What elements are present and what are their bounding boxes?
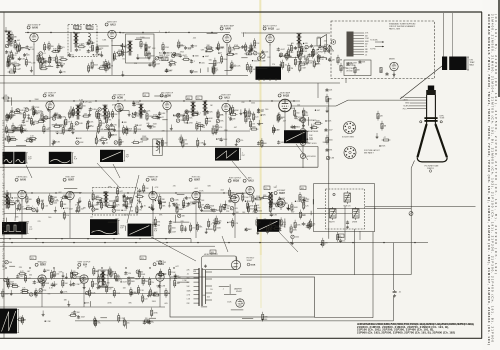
volume pot [258,53,266,63]
svg-text:560: 560 [265,109,268,111]
wire band3 bus [4,192,250,194]
svg-text:CONTRAST: CONTRAST [307,119,318,122]
scope waveform photo R2 [49,152,78,164]
svg-text:1000: 1000 [140,37,144,39]
svg-text:5%: 5% [260,140,263,142]
svg-text:560: 560 [309,226,312,228]
svg-text:TO 45 MC: TO 45 MC [370,40,379,42]
svg-text:.1: .1 [170,280,172,282]
svg-text:47: 47 [124,100,126,102]
svg-text:6SN7: 6SN7 [40,265,46,267]
svg-text:5%: 5% [80,283,83,285]
svg-text:560: 560 [296,113,299,115]
svg-text:.0047: .0047 [182,55,187,57]
svg-text:.047: .047 [119,191,123,193]
svg-text:270: 270 [28,209,31,211]
svg-text:270: 270 [63,71,66,73]
svg-text:1000: 1000 [343,68,347,70]
svg-text:2.2M: 2.2M [46,321,50,323]
svg-text:1000: 1000 [212,126,216,128]
wire band4 mid bus [0,293,170,295]
svg-text:270: 270 [223,209,226,211]
svg-text:5%: 5% [122,59,125,61]
svg-text:1000: 1000 [329,140,333,142]
extra parts pass [5,38,314,324]
CRT neck pin wires [401,97,427,110]
wire band2/band3 separator [0,166,318,168]
parts column x327 [324,88,334,160]
svg-text:120: 120 [302,215,305,217]
svg-text:120: 120 [145,318,148,320]
svg-text:120: 120 [128,273,131,275]
svg-text:SOCKET VIEW: SOCKET VIEW [342,137,354,139]
svg-text:6SN7: 6SN7 [68,180,74,182]
top right vertical wire [443,13,445,57]
scope waveform photo R4 [215,148,246,161]
tube V16b [274,189,286,210]
svg-text:5%: 5% [210,289,213,291]
svg-text:5%: 5% [8,129,11,131]
svg-text:.01: .01 [151,322,154,324]
wire loop deflection box [170,277,315,317]
svg-text:47: 47 [19,68,21,70]
flyback transformer [187,268,213,306]
svg-text:1ST VIDEO IF: 1ST VIDEO IF [44,92,57,94]
svg-text:47: 47 [85,266,87,268]
svg-text:6AL5: 6AL5 [110,23,116,26]
wire band1 lower bus [0,75,248,77]
svg-text:MAG: MAG [470,64,475,67]
svg-text:560: 560 [264,143,267,145]
wire v x411 [411,161,414,275]
band1 right extra clusters [248,53,259,62]
svg-text:.002: .002 [17,40,21,42]
scope waveform photo R5-video [284,130,313,143]
tube V3 1st audio [220,24,235,45]
band1 left input coil [6,31,11,46]
svg-text:120: 120 [129,131,132,133]
wire band1/band2 separator [0,82,340,84]
svg-text:AUDIO OUTPUT: AUDIO OUTPUT [263,24,278,27]
bus junction dots [5,32,415,269]
scope waveform photo R1b [14,152,32,164]
svg-text:2.2M: 2.2M [75,284,79,286]
svg-text:SCRN: SCRN [403,106,409,108]
tuner bottom stub wire [345,79,347,84]
svg-text:120: 120 [255,117,258,119]
svg-text:.0047: .0047 [123,215,128,217]
tube V12 phase det [146,176,159,203]
scope waveform photo S3 [128,224,158,237]
svg-text:560: 560 [83,105,86,107]
left third density boost band1 [10,36,131,76]
svg-text:2.2M: 2.2M [199,143,203,145]
svg-text:5%: 5% [241,140,244,142]
svg-text:6BQ7 6U8: 6BQ7 6U8 [346,68,354,70]
svg-text:6SN7: 6SN7 [279,193,285,195]
svg-text:120: 120 [314,46,317,48]
svg-text:.01: .01 [365,46,367,48]
svg-text:HOR OSC: HOR OSC [192,177,201,179]
scan fold yellow mark [259,0,262,255]
svg-text:GRID: GRID [405,103,410,105]
tube socket diagram 2 [344,147,380,159]
scope waveform photo S1 [2,222,33,234]
svg-text:270: 270 [114,125,117,127]
svg-text:.002: .002 [29,47,32,49]
svg-text:2.2M: 2.2M [172,232,176,234]
horiz linearity coil [344,191,352,207]
tube V7 3rd video IF [160,92,174,112]
model list text block [357,322,474,335]
svg-text:6AL5: 6AL5 [248,180,254,183]
tube V10 agc [15,176,28,202]
svg-text:2.2M: 2.2M [10,284,14,286]
svg-text:.002: .002 [303,62,307,64]
svg-text:47: 47 [177,275,179,277]
svg-text:.0047: .0047 [275,226,280,228]
wire v x393.4 upper + cap [392,243,394,290]
svg-text:.047: .047 [27,278,31,280]
svg-text:.0047: .0047 [280,49,285,51]
svg-text:.005: .005 [90,43,94,45]
svg-text:.005: .005 [201,62,205,64]
CRT socket diagram [342,122,356,139]
svg-text:6BQ6: 6BQ6 [233,181,240,183]
svg-text:500K: 500K [251,265,256,267]
left border line [3,12,5,338]
svg-text:270: 270 [95,54,98,56]
wire video amp to CRT [291,100,408,106]
wire corner up x318 [317,147,319,168]
svg-text:6AQ5: 6AQ5 [283,94,290,97]
svg-text:.047: .047 [123,210,127,212]
phono jack [331,40,335,44]
tube V1 2nd sound IF [27,24,41,44]
svg-text:.047: .047 [175,266,179,268]
svg-text:560: 560 [29,275,32,277]
svg-text:47: 47 [300,61,302,63]
wire from ion trap to circuit [400,66,442,99]
band3 lower clusters [154,217,161,228]
svg-text:.0047: .0047 [81,317,86,319]
svg-text:560: 560 [90,68,93,70]
tube V5 1st video IF [43,92,57,112]
svg-text:OR 6X8: OR 6X8 [346,71,352,73]
svg-text:.005: .005 [176,205,180,207]
svg-text:HOFFMAN MODELS 7M100, 7M200, 7: HOFFMAN MODELS 7M100, 7M200, 7M121, 7M30… [487,14,491,345]
svg-text:.0047: .0047 [36,282,41,284]
svg-text:.01: .01 [90,217,93,219]
svg-text:120: 120 [297,104,300,106]
svg-text:47: 47 [24,320,26,322]
band2 right small parts near CRT [376,111,391,148]
svg-text:2.2M: 2.2M [219,48,223,50]
svg-text:.005: .005 [88,102,92,104]
bottom border line [0,337,482,339]
component clutter band4 [2,277,14,299]
svg-text:.0047: .0047 [122,282,127,284]
svg-text:1000: 1000 [101,279,105,281]
svg-text:.005: .005 [13,198,17,200]
svg-text:.005: .005 [323,41,327,43]
svg-text:2.2M: 2.2M [161,286,165,288]
svg-text:560: 560 [9,262,12,264]
band3 phase transformer [268,192,273,207]
scan right edge artifact [498,0,500,97]
wire v x373 [372,232,374,318]
svg-text:.002: .002 [148,53,152,55]
wire h y317.8 ext [315,317,374,319]
osc trimmer [346,221,349,229]
svg-text:1000: 1000 [258,210,262,212]
svg-text:.005: .005 [164,303,168,305]
svg-text:.005: .005 [11,114,15,116]
svg-text:47: 47 [251,67,253,69]
svg-text:.01: .01 [365,54,367,56]
svg-text:.1: .1 [194,61,196,63]
svg-text:.01: .01 [55,124,58,126]
svg-text:SYNC SEP: SYNC SEP [65,177,75,179]
svg-text:270: 270 [68,122,71,124]
svg-text:2.2M: 2.2M [302,67,306,69]
scope waveform photo S5-corner [0,309,24,334]
component clutter band2 [5,110,16,134]
sound output transformer box [126,34,155,63]
svg-text:.1: .1 [210,224,212,226]
ratio detector transformer dashed box [68,25,97,57]
svg-text:.002: .002 [85,279,89,281]
svg-text:270: 270 [75,205,78,207]
svg-text:47: 47 [61,48,63,50]
IF transformer T6 [202,101,207,116]
svg-text:KEYED AGC: KEYED AGC [17,176,28,179]
wire band4 bus [0,278,199,280]
IF transformer T2 [75,105,80,120]
svg-text:6AV6: 6AV6 [225,27,231,30]
svg-text:.005: .005 [218,221,222,223]
right margin model list (vertical) [487,14,498,345]
boxed transformer T6 [153,139,162,156]
svg-text:.047: .047 [320,49,324,51]
svg-text:.047: .047 [138,125,142,127]
svg-text:.1: .1 [122,109,124,111]
svg-text:HOR OUTPUT: HOR OUTPUT [229,178,242,180]
svg-text:6AQ5: 6AQ5 [268,27,275,30]
tuner box extra parts [337,55,366,75]
svg-text:1000: 1000 [309,60,313,62]
wire band2 lower bus [4,130,250,132]
svg-text:6AL5: 6AL5 [151,179,157,182]
tube V15 afc [243,177,254,198]
svg-text:RATIO DET: RATIO DET [107,20,118,23]
svg-text:270: 270 [192,228,195,230]
svg-text:270: 270 [286,207,289,209]
svg-text:5%: 5% [14,62,17,64]
svg-text:270: 270 [322,244,325,246]
svg-text:2.2M: 2.2M [31,62,35,64]
svg-text:.01: .01 [187,274,189,276]
svg-text:.002: .002 [227,206,231,208]
svg-text:.0047: .0047 [59,57,64,59]
svg-text:.01: .01 [34,140,37,142]
svg-text:.1: .1 [275,186,277,188]
svg-text:6W4GT: 6W4GT [236,291,243,293]
svg-text:.002: .002 [58,192,62,194]
tube V13 horiz osc [189,177,201,203]
svg-text:.01: .01 [43,53,46,55]
wire long bus C [0,245,215,247]
band4 vert output transformer [98,270,108,286]
tube V19 lv rect [153,261,165,284]
tube V17 vert osc [35,262,47,287]
svg-text:.002: .002 [248,229,252,231]
svg-text:2ND VIDEO IF: 2ND VIDEO IF [113,94,126,96]
svg-text:.0047: .0047 [22,209,27,211]
speaker [317,35,327,54]
svg-text:120: 120 [144,298,147,300]
svg-text:.002: .002 [276,29,280,31]
svg-text:2.2M: 2.2M [365,38,369,40]
svg-text:BRIGHTNESS: BRIGHTNESS [307,131,319,133]
svg-text:270: 270 [173,186,176,188]
damper tube [234,288,244,308]
svg-text:47: 47 [100,65,102,67]
svg-text:560: 560 [188,198,191,200]
svg-text:VIDEO AMP: VIDEO AMP [280,91,291,94]
wire long bus B [0,242,428,244]
svg-text:.0047: .0047 [159,117,164,119]
tube V8 video det [219,94,232,114]
svg-text:.047: .047 [317,110,321,112]
left third density boost band2 [6,106,131,142]
svg-text:2.2M: 2.2M [247,201,251,203]
svg-text:.0047: .0047 [69,209,74,211]
svg-text:120: 120 [305,43,308,45]
svg-text:.0047: .0047 [124,45,129,47]
svg-text:.002: .002 [163,262,167,264]
svg-text:.002: .002 [256,205,259,207]
svg-text:.01: .01 [90,293,93,295]
wire band4 low bus [0,306,165,308]
svg-text:1000: 1000 [172,228,176,230]
svg-text:.002: .002 [304,112,308,114]
svg-text:.01: .01 [116,56,119,58]
tube V2 ratio det [105,20,118,41]
svg-text:.005: .005 [185,143,189,145]
tube V9 video amp [278,91,291,112]
svg-text:560: 560 [187,278,190,280]
svg-text:.005: .005 [54,202,58,204]
tube V18 vert out [78,262,92,287]
svg-text:.005: .005 [75,113,79,115]
svg-text:.1: .1 [91,204,93,206]
svg-text:VERT HOLD: VERT HOLD [307,143,318,145]
tuner sub box [344,60,371,76]
svg-text:560: 560 [47,270,50,272]
svg-text:5%: 5% [48,294,51,296]
svg-text:.005: .005 [146,123,150,125]
test point boxes [186,96,192,100]
svg-text:5%: 5% [264,219,267,221]
svg-text:5%: 5% [151,282,154,284]
svg-text:5%: 5% [343,240,346,242]
svg-text:1000: 1000 [26,115,30,117]
svg-text:21P900 (Ch. 192), 21P500, 21P6: 21P900 (Ch. 192), 21P500, 21P600, 21P700… [357,331,455,335]
scope waveform photo R1a [3,152,14,164]
svg-text:HOR LIN: HOR LIN [344,205,352,207]
svg-text:.01: .01 [105,143,108,145]
tube V6 2nd video IF [112,94,126,114]
wire loop horiz section box [314,184,375,232]
IF transformer T3 [102,105,107,120]
svg-text:.1: .1 [223,288,225,290]
svg-text:.0047: .0047 [143,112,148,114]
svg-text:1000: 1000 [251,103,255,105]
svg-text:120: 120 [194,46,197,48]
svg-text:.0047: .0047 [55,62,60,64]
svg-text:120: 120 [137,200,140,202]
svg-text:560: 560 [306,201,309,203]
svg-text:.047: .047 [186,118,190,120]
svg-text:(Ch. 191, B), 21P900 (Ch. 192): (Ch. 191, B), 21P900 (Ch. 192), 21P500, … [494,14,498,274]
sync discriminator dashed box [93,188,138,216]
svg-text:.01: .01 [399,292,402,294]
svg-text:.1: .1 [133,140,135,142]
tube V11 sync sep [63,177,75,203]
wire band2 bottom rail [4,146,318,148]
svg-text:1000: 1000 [291,108,295,110]
wire band1 plate bus [25,32,230,34]
svg-text:270: 270 [257,208,260,210]
component clutter band1 [5,50,17,67]
svg-text:47: 47 [259,222,261,224]
svg-text:261 SCHEMATIC HOFFMAN CH. 190: 261 SCHEMATIC HOFFMAN CH. 190 191 192 SE… [2,120,5,271]
svg-text:1000: 1000 [207,51,211,53]
svg-text:.002: .002 [282,198,286,200]
audio output transformer coil [296,33,301,48]
svg-text:SEE PAGE 7: SEE PAGE 7 [364,151,374,154]
svg-text:120: 120 [315,52,318,54]
svg-text:.1: .1 [216,70,218,72]
left edge component stack band2 [2,95,19,140]
svg-text:2.2M: 2.2M [297,201,301,203]
svg-text:.047: .047 [234,127,238,129]
svg-text:.005: .005 [41,200,45,202]
svg-text:.005: .005 [265,51,269,53]
wire v x354 [354,229,356,275]
right border line [481,12,483,339]
CRT picture tube V16 21ATP4 [417,86,447,173]
svg-text:270: 270 [139,209,142,211]
svg-text:1000: 1000 [287,45,291,47]
scope waveform photo R3 [100,150,130,162]
wire long bus A [0,238,191,240]
svg-text:1000: 1000 [293,229,297,231]
svg-text:120: 120 [156,286,159,288]
svg-text:HOR AMP: HOR AMP [277,189,286,192]
audio output transformer (solid) [256,67,282,82]
svg-text:1000: 1000 [207,48,211,50]
svg-text:.047: .047 [253,69,257,71]
HI SET ADJUST box [202,253,237,270]
svg-text:560: 560 [136,104,139,106]
svg-text:5%: 5% [60,66,63,68]
svg-text:2ND SOUND IF: 2ND SOUND IF [27,24,41,26]
svg-text:WIDTH: WIDTH [329,221,335,223]
left edge component stack band1 [5,27,18,73]
svg-text:270: 270 [272,64,275,66]
